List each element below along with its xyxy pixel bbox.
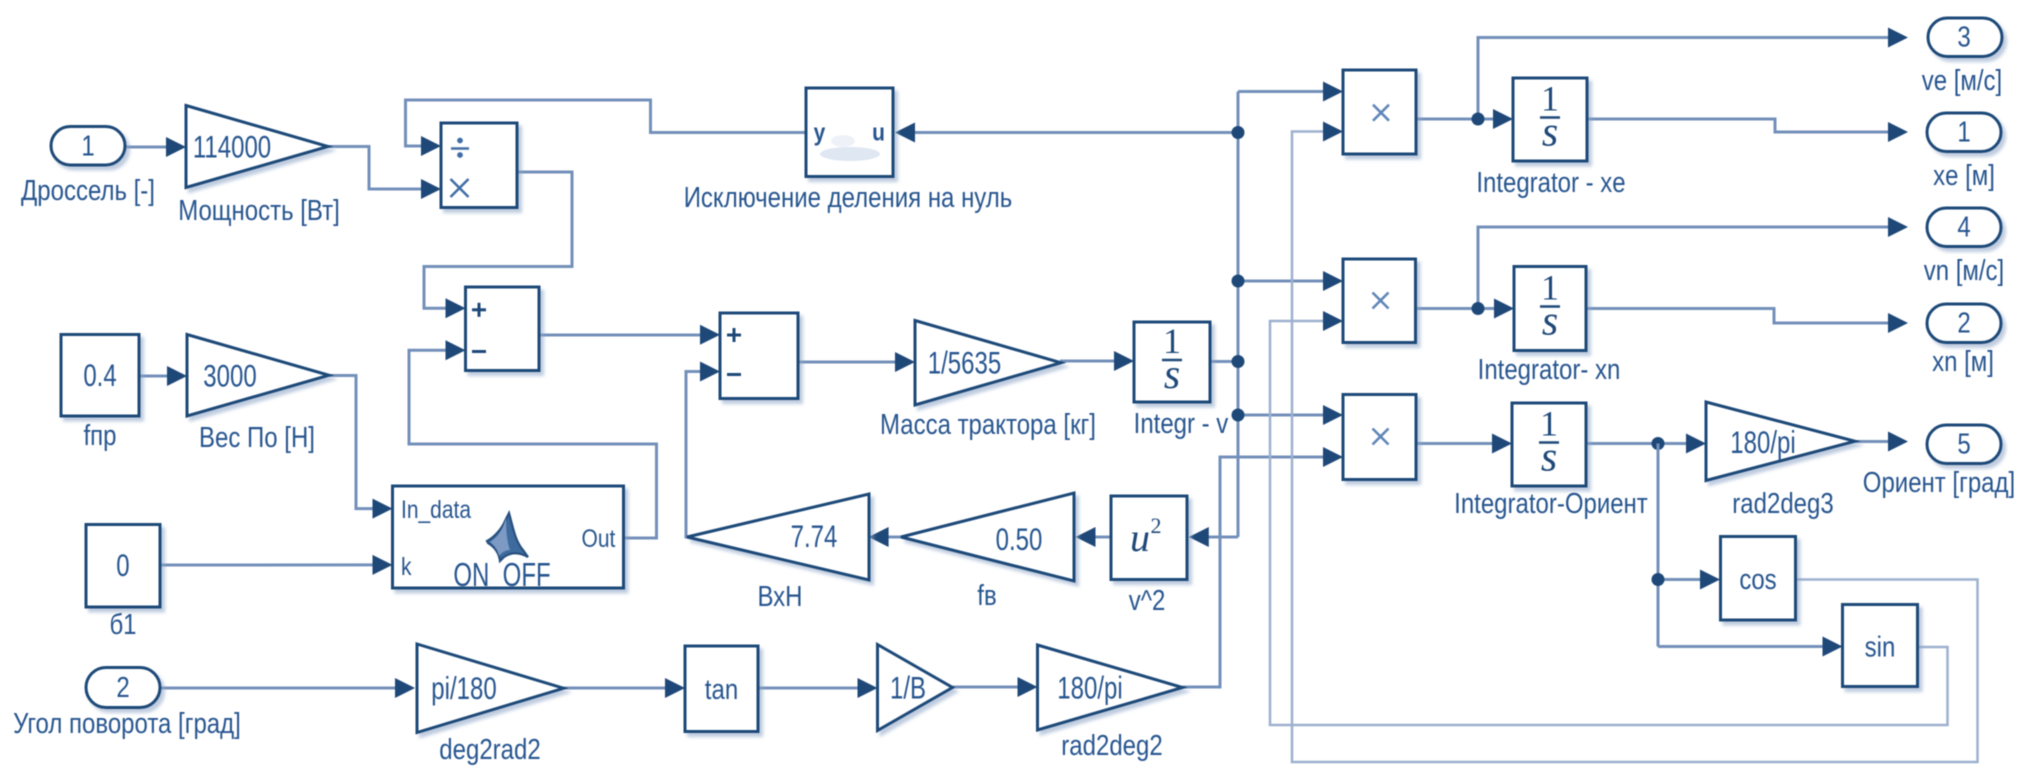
wire gain Вес По to subsystem In_data bbox=[329, 376, 393, 519]
svg-text:1: 1 bbox=[81, 130, 94, 162]
svg-text:v^2: v^2 bbox=[1129, 584, 1166, 616]
label fпр bbox=[83, 419, 116, 451]
svg-text:ve [м/с]: ve [м/с] bbox=[1922, 64, 2002, 96]
label Integrator-Ориент bbox=[1454, 487, 1648, 519]
wire sum2 output to gain Масса трактора bbox=[798, 352, 915, 372]
wire feedback y/u output to divide input 1 bbox=[406, 100, 807, 156]
label Масса трактора [кг] bbox=[880, 408, 1096, 440]
junction dot v/X2 bbox=[1232, 275, 1245, 288]
integrator Integrator-Ориент bbox=[1512, 403, 1586, 486]
label Угол поворота [град] bbox=[13, 707, 241, 739]
svg-text:s: s bbox=[1542, 110, 1558, 156]
svg-text:ВхН: ВхН bbox=[757, 580, 802, 612]
junction dot theta/cos bbox=[1652, 573, 1665, 586]
wire Integrator - xe to output port 1 bbox=[1587, 119, 1908, 142]
gain 1/B bbox=[878, 645, 953, 731]
wire gain Масса трактора to Integr - v bbox=[1060, 351, 1134, 371]
wire gain fв to gain ВхН bbox=[869, 527, 901, 547]
gain ВхН 7.74 bbox=[687, 494, 869, 580]
svg-text:y: y bbox=[814, 119, 826, 146]
label ВхН bbox=[757, 580, 802, 612]
product X2 bbox=[1343, 259, 1416, 343]
gain rad2deg2 180/pi bbox=[1038, 645, 1183, 730]
svg-text:fпр: fпр bbox=[83, 419, 116, 451]
svg-text:u: u bbox=[1130, 515, 1150, 560]
label б1 bbox=[109, 608, 136, 640]
label Вес По [Н] bbox=[199, 421, 315, 453]
wire v node to product X3 input 1 bbox=[1238, 405, 1343, 425]
output port 4 bbox=[1927, 208, 2001, 247]
wire cos output feedback to product X1 input 2 bbox=[1292, 122, 1978, 763]
svg-text:3000: 3000 bbox=[203, 358, 256, 393]
svg-text:0.4: 0.4 bbox=[83, 358, 116, 393]
svg-text:2: 2 bbox=[1957, 307, 1970, 339]
svg-text:sin: sin bbox=[1865, 631, 1896, 663]
label Исключение деления на нуль bbox=[684, 181, 1013, 213]
wire Integrator- xn to output port 2 bbox=[1586, 309, 1908, 334]
svg-text:fв: fв bbox=[977, 579, 996, 611]
svg-text:0: 0 bbox=[116, 548, 129, 583]
wire v node to product X2 input 1 bbox=[1238, 271, 1343, 291]
gain rad2deg3 180/pi bbox=[1706, 402, 1855, 481]
wire theta node vertical bbox=[1657, 444, 1660, 647]
svg-text:s: s bbox=[1541, 435, 1557, 481]
label fв bbox=[977, 579, 996, 611]
svg-text:Вес По [Н]: Вес По [Н] bbox=[199, 421, 315, 453]
wire constant 0.4 to gain Вес По bbox=[139, 366, 187, 386]
block v^2 (u squared) bbox=[1111, 496, 1187, 580]
svg-text:Дроссель [-]: Дроссель [-] bbox=[21, 174, 155, 206]
svg-text:Integr - v: Integr - v bbox=[1134, 407, 1229, 439]
label deg2rad2 bbox=[439, 733, 540, 765]
output port 5 bbox=[1927, 425, 2001, 464]
subsystem ON OFF bbox=[393, 486, 624, 594]
wire gain 1/B to gain rad2deg2 bbox=[953, 677, 1038, 697]
junction dot X1 output bbox=[1472, 113, 1485, 126]
label Дроссель [-] bbox=[21, 174, 155, 206]
wire gain rad2deg3 to output port 5 bbox=[1855, 432, 1908, 452]
label rad2deg2 bbox=[1061, 729, 1162, 761]
svg-text:tan: tan bbox=[705, 673, 738, 705]
wire v node to y/u block input bbox=[895, 123, 1238, 143]
block y|u (Исключение деления на нуль) bbox=[806, 88, 893, 177]
wire X1 junction to output port 3 bbox=[1478, 28, 1908, 120]
svg-text:xn [м]: xn [м] bbox=[1932, 345, 1994, 377]
input port 1 bbox=[51, 127, 125, 166]
svg-text:Out: Out bbox=[582, 524, 616, 552]
svg-text:0.50: 0.50 bbox=[996, 522, 1043, 557]
gain fв 0.50 bbox=[901, 493, 1074, 581]
product X1 bbox=[1343, 70, 1416, 154]
wire gain ВхН to sum2 minus input bbox=[686, 362, 720, 538]
wire tan to gain 1/B bbox=[757, 678, 878, 698]
wire v node vertical line bbox=[1237, 92, 1240, 538]
wire sum1 output to sum2 plus input bbox=[539, 325, 720, 345]
label xe [м] bbox=[1933, 159, 1995, 191]
constant 0.4 (fпр) bbox=[61, 335, 139, 417]
label Integrator- xn bbox=[1478, 353, 1621, 385]
svg-text:3: 3 bbox=[1957, 21, 1970, 53]
svg-text:deg2rad2: deg2rad2 bbox=[439, 733, 540, 765]
label Ориент [град] bbox=[1863, 466, 2015, 498]
junction dot v/yu bbox=[1232, 126, 1245, 139]
svg-text:180/pi: 180/pi bbox=[1057, 670, 1122, 705]
wire X2 junction to output port 4 bbox=[1478, 217, 1908, 309]
wire gain deg2rad2 to tan bbox=[564, 678, 686, 698]
integrator Integrator - xe bbox=[1513, 78, 1587, 161]
svg-text:pi/180: pi/180 bbox=[431, 671, 496, 706]
label vn [м/с] bbox=[1924, 254, 2004, 286]
wire divide output to sum1 plus input bbox=[424, 172, 572, 318]
wire Integr - v output to v node bbox=[1210, 360, 1238, 363]
output port 2 bbox=[1927, 304, 2001, 343]
wire subsystem Out to sum1 minus input bbox=[409, 340, 657, 538]
svg-text:s: s bbox=[1542, 299, 1558, 345]
junction dot theta bbox=[1652, 437, 1665, 450]
wire v node to v^2 input bbox=[1189, 527, 1238, 547]
junction dot v from integrator bbox=[1232, 355, 1245, 368]
svg-text:Integrator - xe: Integrator - xe bbox=[1476, 166, 1625, 198]
svg-text:114000: 114000 bbox=[193, 129, 271, 164]
wire input 2 to gain deg2rad2 bbox=[160, 678, 415, 698]
wire gain rad2deg2 to product X3 input 2 bbox=[1183, 447, 1344, 687]
wire product X2 output to Integrator- xn bbox=[1416, 299, 1514, 319]
wire product X3 output to Integrator-Ориент bbox=[1417, 434, 1512, 454]
divide block bbox=[441, 123, 517, 208]
svg-text:1/5635: 1/5635 bbox=[928, 345, 1001, 380]
svg-text:Integrator- xn: Integrator- xn bbox=[1478, 353, 1621, 385]
block tan bbox=[685, 646, 758, 732]
block sin bbox=[1843, 605, 1918, 687]
svg-text:4: 4 bbox=[1957, 211, 1970, 243]
svg-text:б1: б1 bbox=[109, 608, 136, 640]
input port 2 bbox=[86, 668, 160, 708]
svg-text:5: 5 bbox=[1957, 428, 1970, 460]
wire v node to product X1 input 1 bbox=[1238, 82, 1343, 102]
label xn [м] bbox=[1932, 345, 1994, 377]
svg-text:cos: cos bbox=[1739, 563, 1776, 595]
wire constant 0 to subsystem k bbox=[160, 555, 393, 575]
wire gain Мощность to divide input 2 bbox=[328, 147, 441, 200]
svg-text:Ориент [град]: Ориент [град] bbox=[1863, 466, 2015, 498]
integrator Integr - v bbox=[1134, 321, 1210, 402]
svg-text:s: s bbox=[1164, 352, 1180, 398]
gain Мощность [Вт] 114000 bbox=[186, 106, 328, 188]
sum1 block bbox=[466, 287, 540, 371]
svg-text:Масса трактора [кг]: Масса трактора [кг] bbox=[880, 408, 1096, 440]
svg-text:2: 2 bbox=[1151, 513, 1162, 538]
label ve [м/с] bbox=[1922, 64, 2002, 96]
product X3 bbox=[1343, 395, 1416, 480]
integrator Integrator- xn bbox=[1514, 267, 1586, 351]
wire theta node to cos bbox=[1658, 570, 1720, 590]
gain Вес По [Н] 3000 bbox=[187, 335, 329, 417]
output port 1 bbox=[1927, 113, 2001, 152]
wire sin output feedback to product X2 input 2 bbox=[1270, 311, 1948, 725]
wire v^2 output to gain fв bbox=[1076, 527, 1112, 547]
constant 0 (б1) bbox=[86, 525, 160, 608]
svg-text:ON OFF: ON OFF bbox=[453, 557, 550, 594]
svg-text:Мощность [Вт]: Мощность [Вт] bbox=[178, 194, 340, 226]
svg-text:xe [м]: xe [м] bbox=[1933, 159, 1995, 191]
svg-text:In_data: In_data bbox=[401, 495, 471, 523]
label rad2deg3 bbox=[1732, 487, 1833, 519]
svg-text:1/B: 1/B bbox=[890, 670, 926, 705]
block cos bbox=[1721, 537, 1796, 621]
wire input 1 to gain Мощность bbox=[122, 137, 186, 157]
svg-text:Угол поворота [град]: Угол поворота [град] bbox=[13, 707, 241, 739]
junction dot X2 output bbox=[1472, 302, 1485, 315]
sum2 block bbox=[720, 313, 798, 399]
svg-text:Исключение деления на нуль: Исключение деления на нуль bbox=[684, 181, 1013, 213]
svg-text:rad2deg2: rad2deg2 bbox=[1061, 729, 1162, 761]
svg-text:k: k bbox=[401, 552, 412, 580]
svg-text:u: u bbox=[872, 119, 885, 146]
gain Масса трактора 1/5635 bbox=[915, 321, 1061, 406]
svg-text:180/pi: 180/pi bbox=[1730, 425, 1795, 460]
svg-text:vn [м/с]: vn [м/с] bbox=[1924, 254, 2004, 286]
svg-text:Integrator-Ориент: Integrator-Ориент bbox=[1454, 487, 1648, 519]
gain deg2rad2 pi/180 bbox=[417, 644, 564, 733]
output port 3 bbox=[1928, 18, 2002, 57]
label v^2 bbox=[1129, 584, 1166, 616]
wire Integrator-Ориент to gain rad2deg3 bbox=[1586, 434, 1706, 454]
wire theta node to sin bbox=[1658, 637, 1843, 657]
svg-text:rad2deg3: rad2deg3 bbox=[1732, 487, 1833, 519]
wire product X1 output to Integrator - xe bbox=[1416, 109, 1513, 129]
label Мощность [Вт] bbox=[178, 194, 340, 226]
label Integrator - xe bbox=[1476, 166, 1625, 198]
svg-text:1: 1 bbox=[1957, 116, 1970, 148]
junction dot v/X3 bbox=[1232, 409, 1245, 422]
label Integr - v bbox=[1134, 407, 1229, 439]
svg-text:2: 2 bbox=[116, 671, 129, 703]
svg-text:7.74: 7.74 bbox=[791, 519, 838, 554]
